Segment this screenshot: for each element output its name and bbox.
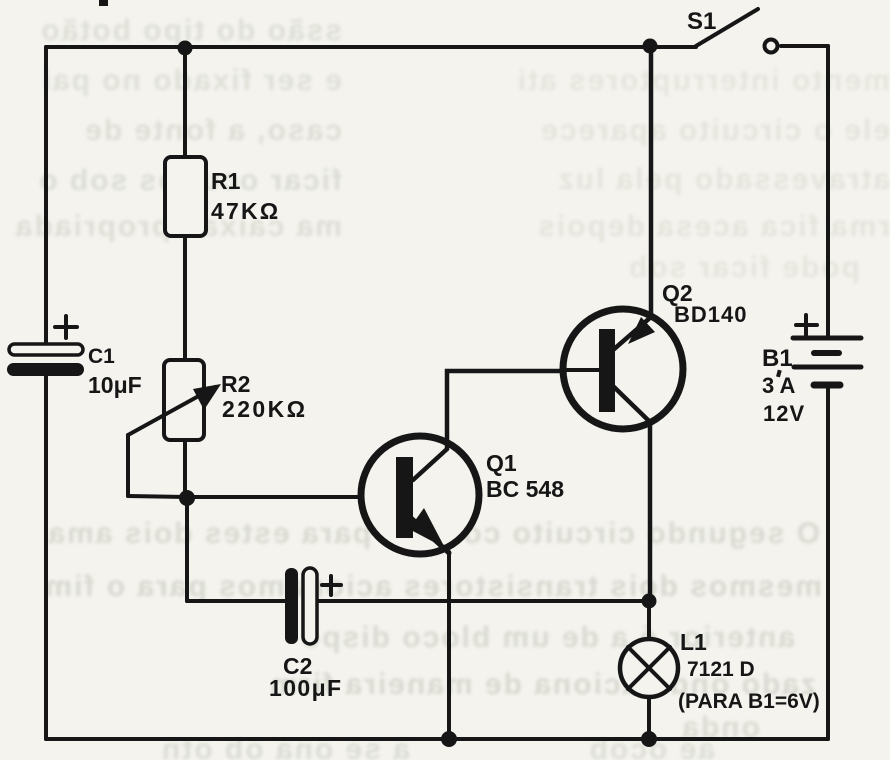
- svg-text:S1: S1: [687, 8, 716, 35]
- svg-text:ele o circuito aparece: ele o circuito aparece: [539, 114, 890, 147]
- svg-text:B1: B1: [762, 345, 793, 372]
- svg-text:BC 548: BC 548: [486, 476, 564, 502]
- svg-text:10μF: 10μF: [88, 372, 142, 398]
- svg-text:7121 D: 7121 D: [687, 658, 755, 681]
- svg-text:R1: R1: [211, 168, 241, 194]
- svg-text:ssão do tipo botão: ssão do tipo botão: [39, 14, 342, 47]
- svg-text:12V: 12V: [763, 401, 805, 426]
- svg-text:mento interruptores ati: mento interruptores ati: [516, 64, 890, 97]
- svg-text:rma fica acesa depois: rma fica acesa depois: [536, 210, 890, 243]
- svg-text:BD140: BD140: [674, 302, 747, 327]
- svg-text:100μF: 100μF: [269, 675, 343, 701]
- svg-text:47KΩ: 47KΩ: [211, 198, 280, 224]
- svg-text:220KΩ: 220KΩ: [222, 396, 307, 422]
- svg-text:mesmos dois transistores ac: mesmos dois transistores acionamos para …: [43, 570, 822, 603]
- svg-text:C1: C1: [88, 345, 115, 368]
- svg-text:Q1: Q1: [486, 450, 517, 476]
- svg-text:anterior é a de um bloco: anterior é a de um bloco dispo: [300, 621, 795, 654]
- svg-text:3 A: 3 A: [762, 373, 796, 398]
- svg-text:caso, a fonte de: caso, a fonte de: [83, 114, 342, 147]
- svg-text:atravessado pela luz: atravessado pela luz: [557, 163, 890, 196]
- svg-text:e ser fixado no pai: e ser fixado no pai: [41, 64, 342, 97]
- svg-text:L1: L1: [680, 629, 707, 655]
- svg-text:R2: R2: [221, 371, 250, 397]
- svg-text:(PARA B1=6V): (PARA B1=6V): [678, 690, 820, 713]
